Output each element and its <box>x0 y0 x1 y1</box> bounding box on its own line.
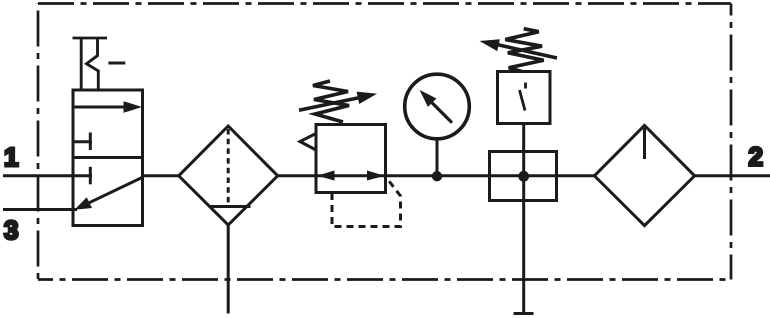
wire: regulator to distribution block <box>386 174 490 177</box>
pressure switch contact <box>520 83 526 111</box>
distribution block internal line <box>490 174 557 177</box>
pressure gauge G1 <box>405 74 470 176</box>
wire: outlet module to port 2 <box>695 174 770 177</box>
blocked port symbol (position b) <box>73 167 92 185</box>
pressure regulator R1 body <box>316 125 386 193</box>
enclosure frame left (dash-dot) <box>37 4 40 280</box>
svg-text:2: 2 <box>749 142 763 172</box>
detent dash <box>108 62 125 65</box>
branch line: pressure switch to exhaust <box>522 124 525 314</box>
plugged exhaust port <box>514 312 534 315</box>
filter F1 (diamond with water separator) <box>179 126 278 225</box>
valve flow arrow (position a) <box>73 101 142 113</box>
regulator pilot line (dashed) <box>332 179 401 227</box>
filter drain line <box>227 225 230 314</box>
pressure switch spring <box>505 29 543 72</box>
enclosure frame top (dash-dot) <box>38 2 731 5</box>
svg-text:1: 1 <box>4 142 18 172</box>
manual actuator (push-pull with detent) <box>73 38 108 90</box>
port 1 line <box>3 174 73 177</box>
regulator flow path (double arrow) <box>316 171 386 181</box>
blocked port symbol (position a) <box>73 133 92 151</box>
wire: filter to regulator <box>278 174 316 177</box>
regulator spring <box>313 81 349 122</box>
distribution block body <box>490 152 557 201</box>
enclosure frame right (dash-dot) <box>730 4 733 280</box>
regulator adjustment arrow <box>299 92 377 111</box>
outlet module (diamond) <box>594 125 694 225</box>
exhaust path arrow (position b) <box>75 178 143 210</box>
port 3 line <box>3 208 77 211</box>
wire: valve outlet to filter <box>143 174 180 177</box>
gauge junction node <box>432 171 442 181</box>
regulator relief exhaust triangle <box>300 134 316 151</box>
svg-text:3: 3 <box>4 215 18 245</box>
wire: distribution block to outlet module <box>557 174 595 177</box>
pressure switch PS1 body <box>498 72 551 124</box>
branch junction node <box>518 171 529 182</box>
enclosure frame bottom (dash-dot) <box>38 278 731 281</box>
on-off valve V1 body <box>73 90 143 226</box>
pressure switch adjustment arrow <box>480 39 558 58</box>
